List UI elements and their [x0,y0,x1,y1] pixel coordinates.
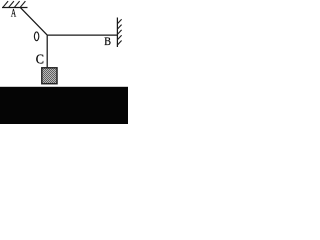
string OC (vertical) [46,35,48,68]
block C (hatched weight) [42,68,57,84]
wall hatching [117,19,121,45]
svg-text:B: B [104,36,111,49]
ceiling line at anchor A [2,7,28,9]
svg-text:A: A [11,7,16,20]
ground (black region) [0,87,128,124]
rope AO (diagonal) [21,8,48,35]
svg-text:C: C [36,51,44,67]
ceiling hatching [3,1,25,7]
rope OB (horizontal) [47,34,117,36]
label O [34,32,38,41]
wall line at B [116,18,118,48]
